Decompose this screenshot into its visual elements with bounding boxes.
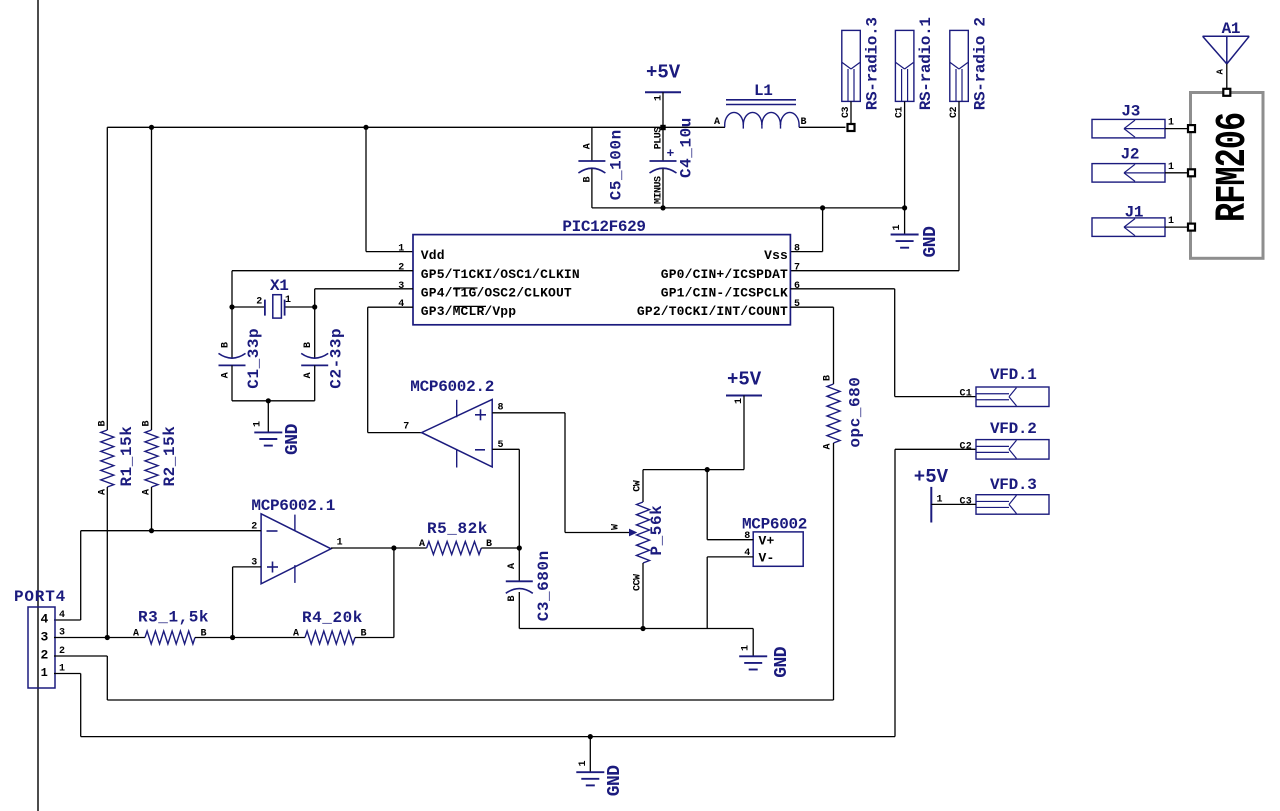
potentiometer P_56k [642, 470, 644, 502]
node junction R1/pin3 [105, 635, 110, 640]
op-amp U2B MCP6002.2 [422, 399, 493, 467]
wire Vss to rail [790, 251, 822, 253]
svg-text:RS-radio.1: RS-radio.1 [917, 17, 935, 110]
capacitor C2-33p [314, 307, 316, 358]
svg-text:R5_82k: R5_82k [427, 520, 488, 538]
wire VFD.2 riser [894, 449, 896, 736]
svg-text:A: A [714, 117, 720, 128]
svg-text:Vss: Vss [764, 248, 788, 263]
wire opc bottom to port wire [833, 443, 835, 700]
svg-text:RS-radio.3: RS-radio.3 [864, 17, 882, 110]
svg-text:C5_100n: C5_100n [608, 129, 626, 200]
svg-text:1: 1 [398, 243, 404, 254]
svg-text:V+: V+ [759, 533, 775, 548]
wire RS-radio.3 pin C3 [850, 101, 852, 124]
wire PORT4 pin2 long [54, 655, 107, 657]
ground GND (top right) [904, 208, 906, 234]
svg-text:A: A [507, 563, 518, 569]
svg-text:1: 1 [285, 295, 291, 306]
svg-text:R4_20k: R4_20k [302, 609, 363, 627]
svg-text:Vdd: Vdd [421, 248, 445, 263]
svg-text:B: B [142, 421, 153, 427]
svg-text:J3: J3 [1121, 103, 1140, 121]
svg-text:1: 1 [578, 761, 589, 767]
svg-text:C3: C3 [960, 496, 972, 507]
svg-text:RS-radio 2: RS-radio 2 [972, 17, 990, 110]
svg-text:B: B [801, 117, 807, 128]
wire non-inverting input [233, 566, 262, 568]
wire bottom analog rail [519, 628, 753, 630]
svg-text:GND: GND [772, 646, 792, 678]
wire R1 top drop [106, 127, 108, 430]
pin 3 GP4 [315, 288, 413, 290]
svg-text:1: 1 [1168, 216, 1174, 227]
connector J3 [1092, 119, 1165, 137]
svg-text:3: 3 [398, 281, 404, 292]
resistor R1_15k [101, 430, 114, 487]
svg-text:A: A [823, 444, 834, 450]
svg-text:opc_680: opc_680 [847, 377, 865, 448]
svg-text:A: A [419, 539, 425, 550]
pin 5 GP2 [790, 306, 833, 308]
wire inverting input row [81, 530, 261, 532]
node pin square J1 [1188, 224, 1195, 231]
svg-text:C2: C2 [960, 441, 972, 452]
svg-text:C2: C2 [949, 106, 960, 118]
svg-text:C3: C3 [841, 106, 852, 118]
svg-text:A: A [133, 629, 139, 640]
svg-text:3: 3 [40, 630, 48, 645]
svg-text:4: 4 [398, 299, 404, 310]
connector J2 [1092, 164, 1165, 183]
resistor R3_1,5k [145, 631, 195, 644]
node junction gnd tap [266, 398, 271, 403]
IC power MCP6002 V+/V- [753, 532, 803, 566]
wire J1 pin 1 [1165, 226, 1188, 228]
capacitor C1_33p [231, 307, 233, 358]
svg-text:1: 1 [1168, 118, 1174, 129]
svg-text:VFD.3: VFD.3 [990, 476, 1037, 494]
node junction bottom gnd tap [588, 734, 593, 739]
svg-text:P_56k: P_56k [648, 505, 666, 556]
svg-text:J2: J2 [1121, 146, 1140, 164]
svg-text:RFM206: RFM206 [1210, 113, 1257, 222]
pin 4 GP3 [368, 306, 413, 308]
resistor R5_82k [394, 547, 427, 549]
svg-text:C1: C1 [894, 106, 905, 118]
svg-text:B: B [507, 596, 518, 602]
svg-text:1: 1 [937, 495, 943, 506]
wire minus input to C3 node [492, 448, 519, 450]
svg-text:PLUS: PLUS [654, 127, 665, 150]
wire GND rail under C5/C4 [592, 207, 905, 209]
svg-text:5: 5 [794, 299, 800, 310]
svg-text:1: 1 [337, 538, 343, 549]
ground GND (analog) [752, 629, 754, 657]
svg-text:GP0/CIN+/ICSPDAT: GP0/CIN+/ICSPDAT [661, 267, 788, 282]
wire J2 pin 1 [1165, 172, 1188, 174]
svg-text:A: A [293, 629, 299, 640]
svg-text:2: 2 [40, 648, 48, 663]
node junction plus input tap [230, 635, 235, 640]
ground GND (bottom) [589, 737, 591, 772]
svg-text:L1: L1 [754, 82, 773, 100]
node pin square J3 [1188, 125, 1195, 132]
svg-text:X1: X1 [270, 277, 289, 295]
svg-text:+5V: +5V [646, 62, 681, 84]
svg-text:C3_680n: C3_680n [535, 550, 553, 621]
svg-text:PIC12F629: PIC12F629 [562, 218, 645, 236]
svg-text:C1_33p: C1_33p [245, 328, 263, 389]
svg-text:PORT4: PORT4 [14, 588, 66, 606]
connector RS-radio.3 [842, 30, 861, 101]
wire R2 top drop [151, 127, 153, 430]
capacitor C4_10u polarized [662, 128, 664, 162]
svg-text:CCW: CCW [632, 574, 643, 591]
connector RS-radio.1 [895, 30, 914, 101]
wire Vdd drop [365, 127, 367, 251]
wire R4 to feedback [355, 637, 394, 639]
svg-text:R2_15k: R2_15k [161, 426, 179, 487]
svg-text:1: 1 [734, 398, 745, 404]
svg-text:B: B [486, 539, 492, 550]
node square junction +5V/C4/rail [660, 125, 665, 130]
svg-text:GND: GND [921, 226, 941, 258]
svg-text:B: B [303, 342, 314, 348]
svg-text:C4_10u: C4_10u [678, 117, 696, 178]
svg-text:VFD.1: VFD.1 [990, 366, 1037, 384]
svg-text:4: 4 [40, 612, 48, 627]
svg-text:J1: J1 [1125, 204, 1144, 222]
svg-text:7: 7 [403, 422, 409, 433]
IC U1 PIC12F629 body [413, 235, 790, 325]
svg-text:MCP6002.2: MCP6002.2 [410, 378, 494, 396]
wire R1 bottom [106, 487, 108, 638]
svg-text:1: 1 [654, 95, 665, 101]
node junction X1 left [229, 304, 234, 309]
svg-text:1: 1 [1168, 162, 1174, 173]
node pin square antenna [1223, 89, 1230, 96]
resistor R4_20k [305, 631, 355, 644]
node junction V+ tap [705, 467, 710, 472]
svg-text:8: 8 [794, 243, 800, 254]
connector VFD.2 [976, 440, 1049, 460]
resistor R2_15k [145, 430, 158, 487]
node pin square J2 [1188, 169, 1195, 176]
svg-text:+: + [667, 146, 675, 161]
svg-text:1: 1 [741, 645, 752, 651]
inductor L1 [726, 99, 796, 101]
svg-text:VFD.2: VFD.2 [990, 420, 1037, 438]
svg-text:MCP6002: MCP6002 [742, 516, 807, 534]
svg-text:1: 1 [253, 421, 264, 427]
power +5V symbol (top) [645, 91, 681, 93]
wire RS-radio.1 down to rail [904, 101, 906, 207]
wire feedback drop [393, 548, 395, 638]
svg-text:7: 7 [794, 263, 800, 274]
svg-text:B: B [221, 342, 232, 348]
wire top rail right of L1 [799, 126, 846, 128]
svg-text:1: 1 [892, 225, 903, 231]
svg-text:B: B [823, 375, 834, 381]
svg-text:4: 4 [59, 610, 65, 621]
svg-text:2: 2 [256, 297, 262, 308]
svg-text:2: 2 [398, 263, 404, 274]
svg-text:GP4/T1G/OSC2/CLKOUT: GP4/T1G/OSC2/CLKOUT [421, 286, 572, 301]
svg-text:B: B [98, 421, 109, 427]
wire plus input to wiper [492, 412, 565, 414]
svg-text:A: A [583, 143, 594, 149]
node junction CCW/rail [640, 626, 645, 631]
wire R3 to R4 [195, 637, 305, 639]
crystal X1 [232, 306, 264, 308]
svg-text:1: 1 [41, 666, 48, 680]
node junction output/R4/R5 [391, 545, 396, 550]
svg-text:A: A [221, 372, 232, 378]
svg-text:C2-33p: C2-33p [328, 328, 346, 389]
node junction R2/inverting input [149, 528, 154, 533]
svg-text:GP5/T1CKI/OSC1/CLKIN: GP5/T1CKI/OSC1/CLKIN [421, 267, 580, 282]
capacitor C5_100n [591, 127, 593, 161]
svg-text:GP1/CIN-/ICSPCLK: GP1/CIN-/ICSPCLK [661, 286, 788, 301]
wire J3 pin 1 [1165, 128, 1188, 130]
connector J1 [1092, 218, 1165, 237]
svg-text:R1_15k: R1_15k [118, 426, 136, 487]
svg-text:W: W [610, 524, 621, 530]
pin 6 GP1 [790, 288, 894, 290]
wire PORT4 pin1 long [54, 673, 81, 675]
node junction R5/C3/minus input [517, 545, 522, 550]
svg-text:MCP6002.1: MCP6002.1 [251, 497, 335, 515]
svg-text:GND: GND [283, 423, 303, 455]
node junction Vdd/top rail [363, 125, 368, 130]
wire antenna feed [1226, 64, 1228, 89]
wire PORT4 pin4 to op-amp [54, 619, 81, 621]
node junction Vss tap [820, 205, 825, 210]
node square pin C3 [848, 124, 855, 131]
svg-text:CW: CW [632, 480, 643, 492]
svg-text:V-: V- [759, 551, 775, 566]
pin 2 GP5 [232, 270, 413, 272]
svg-text:+5V: +5V [914, 466, 949, 488]
node junction C4/GND rail [660, 205, 665, 210]
svg-text:C1: C1 [960, 389, 972, 400]
ground GND (crystal) [267, 401, 269, 432]
connector RS-radio 2 [950, 30, 969, 101]
svg-text:6: 6 [794, 281, 800, 292]
node junction R2/top rail [149, 125, 154, 130]
connector VFD.1 [976, 387, 1049, 407]
wire RS-radio 2 to GP0 pin7 [958, 101, 960, 270]
svg-text:8: 8 [498, 403, 504, 414]
svg-text:MINUS: MINUS [654, 176, 665, 204]
op-amp U2A MCP6002.1 [261, 514, 331, 584]
resistor opc_680 [827, 384, 840, 443]
svg-text:B: B [583, 177, 594, 183]
wire op-amp1 output [331, 547, 394, 549]
sheet border line [37, 0, 39, 811]
connector VFD.3 [976, 495, 1049, 515]
svg-text:R3_1,5k: R3_1,5k [138, 609, 209, 627]
wire top +5V rail [107, 126, 725, 128]
node junction rail/RS-radio.1 [902, 205, 907, 210]
wire C1-C2 ground rail [232, 400, 315, 402]
wire PORT4 pin3 row [54, 637, 145, 639]
capacitor C3_680n [518, 548, 520, 581]
wire V- to ground rail [707, 556, 753, 558]
svg-text:GND: GND [605, 765, 625, 797]
wire V+ supply [706, 470, 708, 540]
module RFM206 body [1191, 93, 1264, 259]
svg-text:+5V: +5V [727, 369, 762, 391]
node junction X1 right [312, 304, 317, 309]
wire +5V to CW [643, 469, 744, 471]
connector PORT4 body [28, 607, 55, 688]
svg-text:A1: A1 [1222, 20, 1241, 38]
svg-text:A: A [303, 372, 314, 378]
svg-text:GP2/T0CKI/INT/COUNT: GP2/T0CKI/INT/COUNT [637, 304, 788, 319]
wire R2 bottom [151, 487, 153, 531]
